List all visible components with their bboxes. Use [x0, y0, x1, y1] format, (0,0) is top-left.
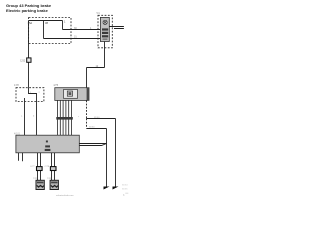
- connector pair2: [50, 167, 56, 171]
- ground wire D2 horizontal: [87, 128, 107, 130]
- svg-text:31/60: 31/60: [94, 117, 100, 119]
- motor M1 top bar: [37, 182, 43, 184]
- dashed box warning lamp unit (top-right): [98, 15, 112, 48]
- ground symbol G2: [113, 187, 119, 190]
- wire lamp bottom down: [104, 42, 106, 68]
- wire A step down: [62, 21, 64, 30]
- ECU pin 6 wire: [71, 100, 73, 135]
- ECU pin 3 wire: [62, 100, 64, 135]
- ECU inner icon: [67, 91, 72, 96]
- motor pair2 wire a: [51, 153, 53, 181]
- ECU inner icon mark: [69, 92, 72, 95]
- svg-text:volvotechinfo.com: volvotechinfo.com: [56, 194, 74, 197]
- wire A to warning lamp: [63, 29, 101, 31]
- bundle connector bar: [56, 117, 73, 120]
- motor pair1 wire b: [40, 153, 42, 181]
- ground legend dash: [125, 192, 128, 195]
- dashed box parking brake switch: [16, 88, 44, 102]
- module inner bar 2: [45, 149, 51, 151]
- main left wire vertical: [28, 21, 30, 88]
- svg-text:C/32: C/32: [20, 60, 26, 63]
- svg-text:4/75: 4/75: [53, 84, 58, 87]
- wire right stub: [114, 28, 124, 30]
- svg-text:31/60: 31/60: [89, 127, 95, 129]
- wire L1 switch to brake module: [24, 98, 26, 136]
- ECU pin 5 wire: [68, 100, 70, 135]
- motor pair2 wire b: [54, 153, 56, 181]
- lamp symbol cross: [104, 21, 107, 24]
- wire lamp bottom left: [87, 67, 105, 69]
- wire jog inside switch: [29, 88, 37, 102]
- ECU inner symbol box: [64, 90, 78, 99]
- stub pin left a: [18, 153, 20, 161]
- wire B to warning lamp: [44, 38, 101, 40]
- ground wire D2 vertical: [106, 129, 108, 187]
- lamp symbol circle: [103, 20, 107, 24]
- svg-text:C/77: C/77: [30, 166, 35, 168]
- svg-text:17/8: 17/8: [14, 84, 19, 87]
- wire right of lamp: [109, 26, 124, 28]
- motor M2 symbol: [51, 185, 58, 187]
- lamp module text bar 1: [102, 28, 108, 30]
- connector pair1: [37, 167, 43, 171]
- motor pair1 wire a: [37, 153, 39, 181]
- module output wire upper: [79, 143, 106, 145]
- svg-text:C/78: C/78: [45, 166, 50, 168]
- wire down to ECU: [86, 68, 88, 88]
- motor M1 body: [36, 180, 44, 189]
- parking brake module box: [16, 135, 79, 153]
- motor M2 top bar: [51, 182, 57, 184]
- lamp module text bar 3: [102, 35, 108, 37]
- lamp module text bar 4: [103, 38, 108, 40]
- svg-text:31/55: 31/55: [122, 189, 128, 191]
- svg-text:31/54: 31/54: [122, 185, 128, 187]
- dashed box CEM (top-left): [29, 18, 71, 44]
- motor M1 symbol: [37, 185, 44, 187]
- stub pin left b: [22, 153, 24, 162]
- wire B vertical from junction: [43, 21, 45, 39]
- connector C1 on left wire: [27, 58, 31, 62]
- ECU pin 1 wire: [57, 100, 59, 135]
- wire L2 switch to brake module: [36, 102, 38, 136]
- ground wire D1 horizontal: [87, 118, 116, 120]
- wire A horizontal top: [29, 20, 63, 22]
- ground lead dashed D2: [86, 119, 88, 129]
- lamp module text bar 2: [102, 32, 108, 34]
- ground wire D1 vertical: [115, 119, 117, 187]
- motor M2 body: [50, 180, 58, 189]
- svg-text:Electric parking brake: Electric parking brake: [6, 8, 49, 13]
- module inner bar 1: [45, 145, 50, 147]
- ECU pin 4 wire: [65, 100, 67, 135]
- module inner icon dot: [46, 141, 48, 143]
- lamp module U1 body: [100, 17, 109, 41]
- module output wire lower: [79, 144, 106, 146]
- ground lead dashed D1: [86, 100, 88, 118]
- ground symbol G1: [104, 187, 110, 190]
- svg-text:4/101: 4/101: [14, 132, 21, 135]
- ECU pin 2 wire: [59, 100, 61, 135]
- ECU box 4/75: [55, 88, 89, 101]
- ECU pin column bar: [87, 88, 89, 101]
